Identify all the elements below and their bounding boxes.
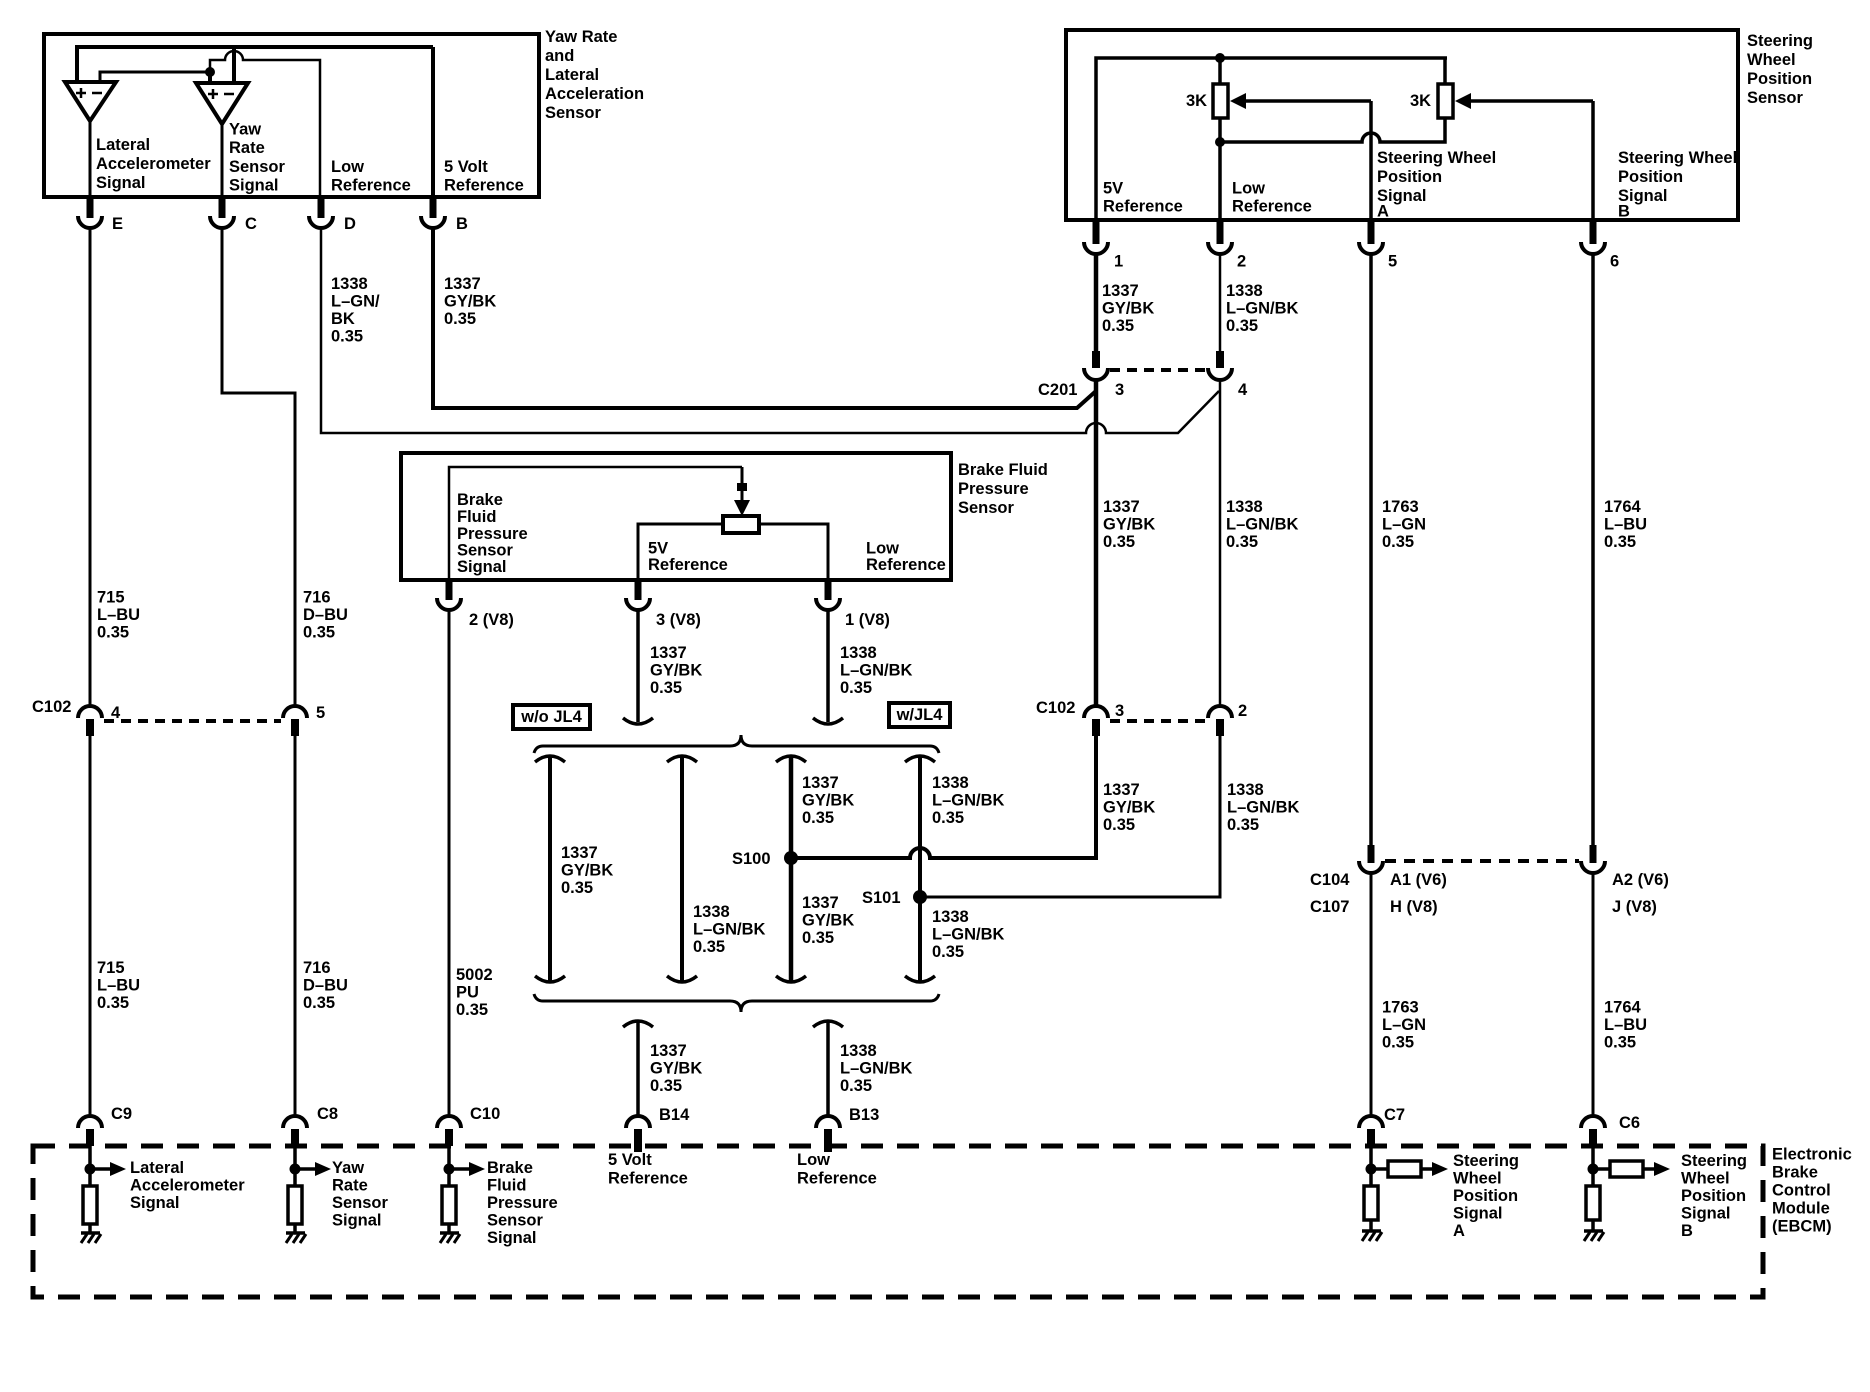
top brace <box>534 735 939 753</box>
svg-text:Yaw: Yaw <box>229 121 261 139</box>
yaw rate and lateral acceleration sensor box <box>44 34 539 197</box>
wiper arrow of left pot <box>1230 93 1371 109</box>
svg-text:1337: 1337 <box>561 844 598 862</box>
label: 1337 GY/BK under pin 3 (V8) <box>650 644 702 697</box>
svg-text:L–GN/BK: L–GN/BK <box>1226 300 1299 318</box>
wire: B14 lead below brace <box>623 1021 653 1115</box>
svg-text:Accelerometer: Accelerometer <box>130 1177 245 1195</box>
svg-text:1338: 1338 <box>1227 781 1264 799</box>
connector C201 pin 3 <box>1084 351 1124 399</box>
svg-text:Lateral: Lateral <box>96 136 150 154</box>
svg-text:2: 2 <box>1237 253 1246 271</box>
lateral accelerometer element (triangle) <box>65 82 116 121</box>
wire option 3 (1337 w/JL4) with splice S100 <box>776 756 806 983</box>
label: Yaw Rate Sensor Signal (module) <box>332 1159 389 1230</box>
label: 5V Reference <box>1103 180 1183 216</box>
ground at C6 <box>1584 1231 1604 1241</box>
svg-text:0.35: 0.35 <box>303 994 335 1012</box>
svg-text:C7: C7 <box>1384 1106 1405 1124</box>
label: 1338 L-GN/BK below C102-2 <box>1227 781 1300 834</box>
svg-text:5 Volt: 5 Volt <box>444 158 488 176</box>
svg-text:L–BU: L–BU <box>97 606 140 624</box>
label: Low Reference <box>866 540 946 575</box>
svg-text:1338: 1338 <box>1226 282 1263 300</box>
svg-text:715: 715 <box>97 589 125 607</box>
svg-text:1337: 1337 <box>802 774 839 792</box>
wire: C6 into module <box>1591 1143 1595 1186</box>
svg-text:Sensor: Sensor <box>457 542 514 560</box>
node: C8 junction dot <box>290 1164 301 1175</box>
pin 3 (V8) connector <box>626 580 701 629</box>
svg-text:Brake: Brake <box>487 1159 533 1177</box>
svg-text:D–BU: D–BU <box>303 606 348 624</box>
label: 716 D-BU upper <box>303 589 348 642</box>
svg-text:A: A <box>1377 203 1389 221</box>
pin 1 (V8) connector <box>816 580 890 629</box>
connector C6 <box>1581 1114 1640 1146</box>
svg-text:L–GN: L–GN <box>1382 1016 1426 1034</box>
wire: S100 to 1337 from C102-3 with hop <box>791 733 1096 858</box>
svg-text:GY/BK: GY/BK <box>1103 799 1155 817</box>
connector C8 <box>283 1105 338 1146</box>
pin 5 connector <box>1359 220 1397 271</box>
svg-text:1337: 1337 <box>802 894 839 912</box>
wire: signal B vertical <box>1591 101 1595 220</box>
svg-text:0.35: 0.35 <box>932 943 964 961</box>
wire 715 L-BU: pin E down to C102 pin 4 <box>89 228 92 705</box>
svg-text:C10: C10 <box>470 1105 500 1123</box>
arrow: lateral accelerometer signal input <box>90 1162 126 1176</box>
wire: resistor to ground C8 <box>293 1224 297 1233</box>
svg-text:w/o JL4: w/o JL4 <box>520 708 582 726</box>
svg-text:GY/BK: GY/BK <box>650 662 702 680</box>
arrow: steering wheel position signal A input <box>1421 1162 1448 1176</box>
wire: pin 1 to C201 pin 3 <box>1094 253 1099 352</box>
connector C10 <box>437 1105 500 1146</box>
node: dot on 5V line <box>1215 53 1225 63</box>
svg-text:Steering Wheel: Steering Wheel <box>1618 149 1737 167</box>
svg-text:0.35: 0.35 <box>840 679 872 697</box>
svg-text:Acceleration: Acceleration <box>545 85 644 103</box>
svg-text:Position: Position <box>1453 1187 1518 1205</box>
label: 5V Reference <box>648 540 728 575</box>
svg-text:0.35: 0.35 <box>331 328 363 346</box>
svg-text:0.35: 0.35 <box>802 809 834 827</box>
connector C201 pin 4 <box>1208 351 1248 399</box>
svg-text:Lateral: Lateral <box>130 1159 184 1177</box>
label: Electronic Brake Control Module (EBCM) <box>1772 1146 1852 1236</box>
wire: C10 into module <box>447 1143 451 1186</box>
svg-text:5002: 5002 <box>456 966 493 984</box>
svg-text:Wheel: Wheel <box>1453 1170 1502 1188</box>
wire: 5V ref top line inside sensor <box>77 45 433 83</box>
label: Steering Wheel Position Signal B (module) <box>1681 1152 1747 1240</box>
svg-text:1338: 1338 <box>693 903 730 921</box>
svg-text:A2 (V6): A2 (V6) <box>1612 871 1669 889</box>
potentiometer 3K (left) <box>1186 58 1228 144</box>
node: C9 junction dot <box>85 1164 96 1175</box>
wire: C8 into module <box>293 1143 297 1186</box>
svg-text:6: 6 <box>1610 253 1619 271</box>
svg-text:Position: Position <box>1681 1187 1746 1205</box>
pin D connector <box>309 197 356 233</box>
connector C102 pin 4 (left) <box>78 704 121 736</box>
wire: yaw rate triangle output <box>221 124 224 197</box>
svg-text:Steering: Steering <box>1681 1152 1747 1170</box>
resistor vertical at C7 <box>1364 1186 1378 1220</box>
svg-text:Reference: Reference <box>1232 198 1312 216</box>
label: 1337 GY/BK below S100 <box>802 894 854 947</box>
svg-text:L–BU: L–BU <box>1604 516 1647 534</box>
svg-text:1 (V8): 1 (V8) <box>845 611 890 629</box>
svg-text:1338: 1338 <box>331 275 368 293</box>
svg-text:1: 1 <box>1114 253 1123 271</box>
svg-text:B: B <box>1618 203 1630 221</box>
wire: resistor to ground C6 <box>1591 1220 1595 1231</box>
ground at C7 <box>1362 1231 1382 1241</box>
wire: left triangle minus to node <box>100 72 210 82</box>
label: Yaw Rate and Lateral Acceleration Sensor <box>545 28 644 122</box>
label: 715 L-BU upper <box>97 589 140 642</box>
svg-text:Yaw: Yaw <box>332 1159 364 1177</box>
svg-text:Electronic: Electronic <box>1772 1146 1852 1164</box>
svg-text:B: B <box>456 215 468 233</box>
svg-text:0.35: 0.35 <box>1226 317 1258 335</box>
wire 5002 PU: pin 2 (V8) down to C10 <box>448 611 451 1115</box>
label: 1763 L-GN lower <box>1382 999 1426 1052</box>
svg-text:1337: 1337 <box>1103 781 1140 799</box>
label: 1337 GY/BK between C201 and C102 <box>1103 498 1155 551</box>
wire: element to low ref pin <box>759 524 828 580</box>
wire option 4 (1338 w/JL4) with splice S101 <box>905 756 935 983</box>
wiper arrow of right pot <box>1455 93 1593 109</box>
svg-text:L–GN/BK: L–GN/BK <box>840 1060 913 1078</box>
svg-text:S100: S100 <box>732 850 771 868</box>
svg-text:1763: 1763 <box>1382 498 1419 516</box>
label: Steering Wheel Position Signal A (module) <box>1453 1152 1519 1240</box>
node: C10 junction dot <box>444 1164 455 1175</box>
svg-text:Signal: Signal <box>332 1212 382 1230</box>
label: 1338 L-GN/BK below S101 <box>932 908 1005 961</box>
svg-text:0.35: 0.35 <box>1103 816 1135 834</box>
svg-text:L–GN/BK: L–GN/BK <box>1226 516 1299 534</box>
resistor at C9 <box>83 1186 97 1224</box>
wire: pin 3 (V8) tail <box>623 611 653 724</box>
svg-text:5: 5 <box>316 704 325 722</box>
svg-text:2: 2 <box>1238 702 1247 720</box>
label: Low Reference <box>1232 180 1312 216</box>
yaw rate element (triangle) <box>196 83 248 124</box>
label: 1337 GY/BK above B14 <box>650 1042 702 1095</box>
label: 1337 GY/BK below C102-3 <box>1103 781 1155 834</box>
label: A1 (V6) H (V8) <box>1390 871 1447 916</box>
svg-text:Signal: Signal <box>457 558 507 576</box>
wire: C9 into module <box>88 1143 92 1186</box>
svg-text:Sensor: Sensor <box>545 104 602 122</box>
svg-text:0.35: 0.35 <box>840 1077 872 1095</box>
svg-text:Yaw Rate: Yaw Rate <box>545 28 617 46</box>
svg-text:Accelerometer: Accelerometer <box>96 155 211 173</box>
C104 dashed connector line <box>1385 859 1579 863</box>
wire: pin 1 (V8) tail <box>813 611 843 724</box>
label: 1764 L-BU upper <box>1604 498 1647 551</box>
label: Low Reference (module) <box>797 1151 877 1188</box>
label: 1337 GY/BK above S100 <box>802 774 854 827</box>
connector C102 pin 3 (right) <box>1084 702 1124 736</box>
svg-text:J (V8): J (V8) <box>1612 898 1657 916</box>
label: 715 L-BU lower <box>97 959 140 1012</box>
label: Brake Fluid Pressure Sensor Signal <box>457 491 528 576</box>
svg-text:Low: Low <box>797 1151 830 1169</box>
label: 716 D-BU lower <box>303 959 348 1012</box>
resistor at C10 <box>442 1186 456 1224</box>
svg-text:3K: 3K <box>1410 92 1431 110</box>
svg-text:C6: C6 <box>1619 1114 1640 1132</box>
svg-text:4: 4 <box>1238 381 1248 399</box>
svg-text:0.35: 0.35 <box>1103 533 1135 551</box>
svg-text:1338: 1338 <box>840 1042 877 1060</box>
svg-text:Steering Wheel: Steering Wheel <box>1377 149 1496 167</box>
svg-text:Signal: Signal <box>229 177 279 195</box>
label: 1338 L-GN/BK above B13 <box>840 1042 913 1095</box>
svg-text:1763: 1763 <box>1382 999 1419 1017</box>
svg-text:0.35: 0.35 <box>802 929 834 947</box>
svg-text:Low: Low <box>1232 180 1265 198</box>
wire 715: C102-4 to C9 <box>89 733 92 1115</box>
svg-text:Sensor: Sensor <box>332 1194 389 1212</box>
svg-text:L–BU: L–BU <box>1604 1016 1647 1034</box>
svg-text:Control: Control <box>1772 1182 1831 1200</box>
arrow: brake fluid pressure signal input <box>449 1162 485 1176</box>
wire: B13 lead below brace <box>813 1021 843 1115</box>
svg-text:0.35: 0.35 <box>1604 1034 1636 1052</box>
svg-text:1337: 1337 <box>444 275 481 293</box>
svg-text:Pressure: Pressure <box>958 480 1029 498</box>
label: 1764 L-BU lower <box>1604 999 1647 1052</box>
svg-text:0.35: 0.35 <box>932 809 964 827</box>
svg-text:1338: 1338 <box>840 644 877 662</box>
svg-text:0.35: 0.35 <box>1604 533 1636 551</box>
svg-text:Pressure: Pressure <box>457 525 528 543</box>
svg-text:C107: C107 <box>1310 898 1349 916</box>
svg-text:Sensor: Sensor <box>487 1212 544 1230</box>
wire 1763: C104 to C7 <box>1370 874 1373 1115</box>
svg-text:1338: 1338 <box>1226 498 1263 516</box>
node: C7 junction dot <box>1366 1164 1377 1175</box>
wire: resistor to ground C7 <box>1369 1220 1373 1231</box>
svg-text:Wheel: Wheel <box>1681 1170 1730 1188</box>
svg-text:C: C <box>245 215 257 233</box>
svg-text:Reference: Reference <box>648 556 728 574</box>
label: Steering Wheel Position Signal A <box>1377 149 1496 221</box>
svg-text:5V: 5V <box>648 540 668 558</box>
label: C104 C107 <box>1310 871 1350 916</box>
wire: pin 2 to C201 pin 4 <box>1219 253 1222 352</box>
svg-text:Reference: Reference <box>1103 198 1183 216</box>
svg-text:Rate: Rate <box>229 139 265 157</box>
label: Lateral Accelerometer Signal <box>96 136 211 192</box>
svg-text:3 (V8): 3 (V8) <box>656 611 701 629</box>
resistor horizontal at C6 <box>1593 1161 1643 1177</box>
label: 1337 GY/BK option 1 <box>561 844 613 897</box>
connector B14 <box>626 1106 690 1152</box>
svg-text:L–GN: L–GN <box>1382 516 1426 534</box>
svg-text:Sensor: Sensor <box>958 499 1015 517</box>
label: Brake Fluid Pressure Sensor (outside) <box>958 461 1048 517</box>
svg-text:Low: Low <box>331 158 364 176</box>
w/JL4 option box <box>889 703 950 727</box>
arrow: yaw rate signal input <box>295 1162 331 1176</box>
ground at C9 <box>81 1233 101 1243</box>
svg-text:E: E <box>112 215 123 233</box>
wire: C7 into module <box>1369 1143 1373 1186</box>
svg-text:S101: S101 <box>862 889 901 907</box>
arrow: pressure arrow onto resistor <box>734 467 750 516</box>
svg-text:A: A <box>1453 1222 1465 1240</box>
svg-text:GY/BK: GY/BK <box>802 792 854 810</box>
svg-text:Signal: Signal <box>1681 1205 1731 1223</box>
svg-text:D–BU: D–BU <box>303 977 348 995</box>
label: Yaw Rate Sensor Signal <box>229 121 286 195</box>
C201 dashed connector line <box>1110 368 1206 372</box>
wire: sensor signal line inside brake box <box>449 467 742 580</box>
arrow: steering wheel position signal B input <box>1643 1162 1670 1176</box>
svg-text:716: 716 <box>303 589 331 607</box>
svg-text:BK: BK <box>331 310 355 328</box>
svg-text:Sensor: Sensor <box>1747 89 1804 107</box>
wire: low ref thin line with hop to D <box>210 51 320 197</box>
svg-text:Brake Fluid: Brake Fluid <box>958 461 1048 479</box>
svg-text:Reference: Reference <box>331 177 411 195</box>
splice S101 <box>862 889 927 907</box>
connector C102 pin 5 (left) <box>283 704 325 736</box>
bottom brace <box>534 994 939 1012</box>
label: Steering Wheel Position Sensor <box>1747 32 1813 107</box>
node: junction dot inside sensor <box>205 67 215 77</box>
svg-text:A1 (V6): A1 (V6) <box>1390 871 1447 889</box>
svg-text:Signal: Signal <box>130 1194 180 1212</box>
svg-text:1337: 1337 <box>650 644 687 662</box>
w/o JL4 option box <box>513 705 590 729</box>
svg-text:2 (V8): 2 (V8) <box>469 611 514 629</box>
label: 1763 L-GN upper <box>1382 498 1426 551</box>
svg-text:L–GN/BK: L–GN/BK <box>1227 799 1300 817</box>
wire: low reference vertical to pin 2 <box>1218 142 1222 220</box>
ground at C10 <box>440 1233 460 1243</box>
svg-text:0.35: 0.35 <box>97 624 129 642</box>
svg-text:0.35: 0.35 <box>97 994 129 1012</box>
ground at C8 <box>286 1233 306 1243</box>
svg-text:1337: 1337 <box>1102 282 1139 300</box>
svg-text:GY/BK: GY/BK <box>561 862 613 880</box>
wire 716: C102-5 to C8 <box>294 733 297 1115</box>
wire option 2 (1338 w/o JL4) <box>667 756 697 983</box>
EBCM dashed module border <box>33 1146 1763 1297</box>
wire: low reference tie line with hop <box>1220 118 1445 142</box>
svg-text:Reference: Reference <box>797 1170 877 1188</box>
svg-text:(EBCM): (EBCM) <box>1772 1218 1832 1236</box>
wire 1338 from D to C201 pin 4 with hop <box>321 228 1219 433</box>
svg-text:C104: C104 <box>1310 871 1350 889</box>
svg-text:1338: 1338 <box>932 774 969 792</box>
svg-text:L–GN/BK: L–GN/BK <box>932 792 1005 810</box>
svg-text:Signal: Signal <box>1453 1205 1503 1223</box>
svg-text:0.35: 0.35 <box>303 624 335 642</box>
wire 1764: pin 6 down to C104 <box>1591 253 1595 847</box>
svg-text:0.35: 0.35 <box>693 938 725 956</box>
svg-text:Brake: Brake <box>457 491 503 509</box>
svg-text:GY/BK: GY/BK <box>1102 300 1154 318</box>
connector C102 pin 2 (right) <box>1208 702 1247 736</box>
svg-text:H (V8): H (V8) <box>1390 898 1438 916</box>
svg-text:C102: C102 <box>1036 699 1075 717</box>
svg-text:Sensor: Sensor <box>229 158 286 176</box>
svg-text:3: 3 <box>1115 381 1124 399</box>
label: 1338 L-GN/BK above S101 <box>932 774 1005 827</box>
svg-text:0.35: 0.35 <box>444 310 476 328</box>
svg-text:0.35: 0.35 <box>1226 533 1258 551</box>
pin C connector <box>210 197 257 233</box>
wire 1764: C104 to C6 <box>1592 874 1595 1115</box>
svg-text:Brake: Brake <box>1772 1164 1818 1182</box>
wire: element to 5V ref pin <box>638 524 723 580</box>
wire 1763: pin 5 down to C104 <box>1369 253 1373 847</box>
svg-text:Module: Module <box>1772 1200 1830 1218</box>
svg-text:Position: Position <box>1377 168 1442 186</box>
wire: B 5 volt reference vertical <box>431 47 435 197</box>
svg-text:Steering: Steering <box>1453 1152 1519 1170</box>
svg-text:0.35: 0.35 <box>650 1077 682 1095</box>
label: Steering Wheel Position Signal B <box>1618 149 1737 221</box>
svg-text:716: 716 <box>303 959 331 977</box>
svg-text:C8: C8 <box>317 1105 338 1123</box>
node: C6 junction dot <box>1588 1164 1599 1175</box>
wire: 5V reference vertical inside <box>1096 58 1447 220</box>
svg-text:0.35: 0.35 <box>1102 317 1134 335</box>
label: wire 1338 L-GN/BK under pin 2 <box>1226 282 1299 335</box>
label: 5 Volt Reference <box>444 158 524 195</box>
wire: signal A vertical <box>1369 101 1373 220</box>
svg-text:1337: 1337 <box>1103 498 1140 516</box>
wire: resistor to ground C9 <box>88 1224 92 1233</box>
svg-text:Position: Position <box>1747 70 1812 88</box>
svg-text:0.35: 0.35 <box>1382 1034 1414 1052</box>
svg-text:L–BU: L–BU <box>97 977 140 995</box>
brake fluid pressure sensor box <box>401 453 951 580</box>
svg-text:PU: PU <box>456 984 479 1002</box>
svg-text:715: 715 <box>97 959 125 977</box>
svg-text:0.35: 0.35 <box>1382 533 1414 551</box>
svg-text:Fluid: Fluid <box>487 1177 526 1195</box>
svg-text:B: B <box>1681 1222 1693 1240</box>
label: A2 (V6) J (V8) <box>1612 871 1669 916</box>
svg-text:C201: C201 <box>1038 381 1077 399</box>
svg-text:0.35: 0.35 <box>456 1001 488 1019</box>
connector C104/C107 pin A2/J <box>1581 845 1605 873</box>
pin 6 connector <box>1581 220 1619 271</box>
pin B connector <box>421 197 468 233</box>
label: 1338 L-GN/BK between C201 and C102 <box>1226 498 1299 551</box>
svg-text:1764: 1764 <box>1604 498 1642 516</box>
connector C104/C107 pin A1/H <box>1359 845 1383 873</box>
splice S100 <box>732 850 798 868</box>
svg-text:Wheel: Wheel <box>1747 51 1796 69</box>
svg-text:w/JL4: w/JL4 <box>896 706 944 724</box>
label: Lateral Accelerometer Signal (module) <box>130 1159 245 1212</box>
wire 1337 from B to C201 pin 3 <box>433 228 1096 408</box>
connector B13 <box>816 1106 879 1152</box>
wire 1337 GY/BK: C201-3 to C102-3 <box>1094 380 1099 705</box>
